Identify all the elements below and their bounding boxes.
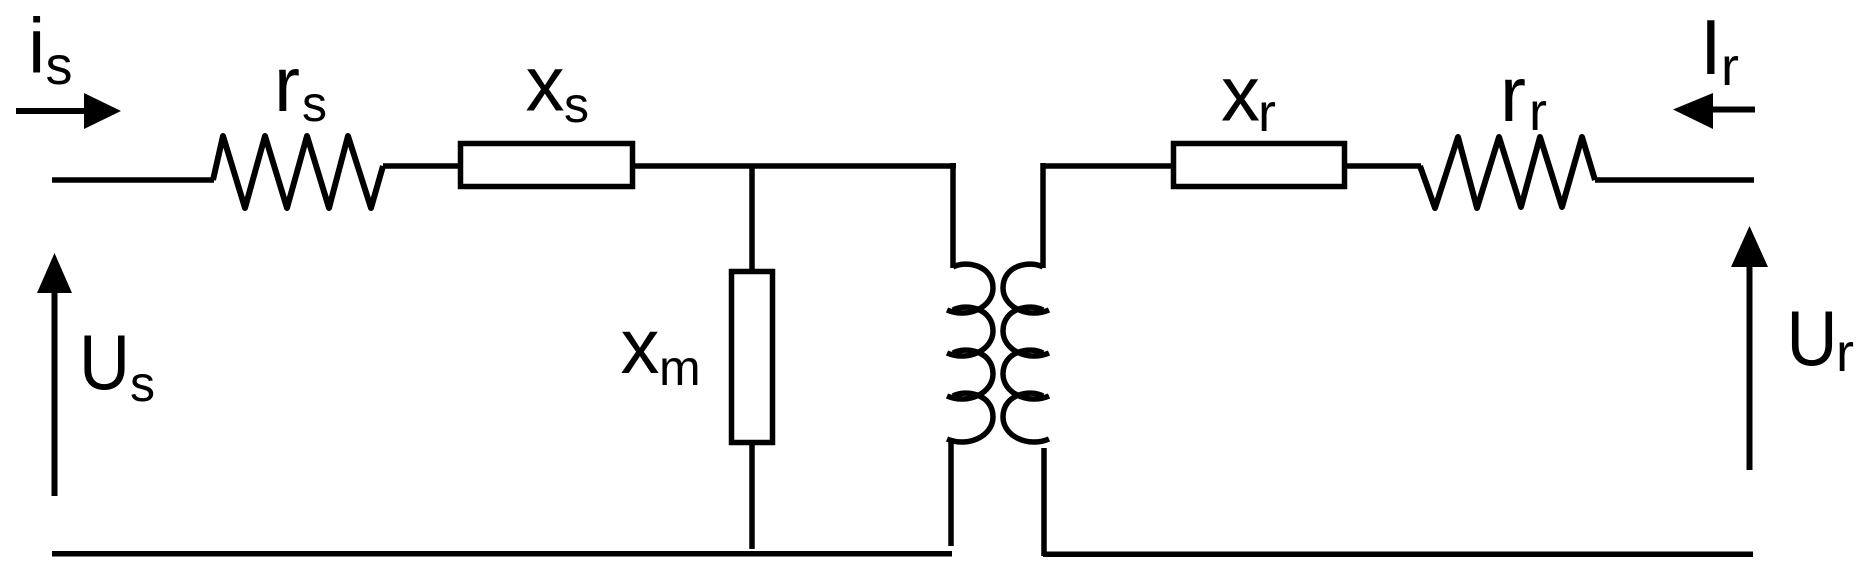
svg-text:I: I (1700, 3, 1722, 91)
svg-text:s: s (564, 77, 589, 133)
svg-text:x: x (621, 302, 660, 390)
svg-text:r: r (1529, 82, 1547, 142)
svg-text:s: s (130, 356, 155, 412)
svg-text:r: r (274, 40, 300, 128)
voltage arrow U_s (37, 253, 72, 496)
svg-text:r: r (1500, 50, 1526, 138)
wire (1041, 448, 1047, 556)
wire x_m branch (749, 166, 755, 271)
svg-text:m: m (659, 340, 701, 396)
wire (749, 443, 755, 549)
bottom rail left (52, 551, 952, 557)
reactance box x_r (1174, 144, 1345, 187)
svg-text:s: s (46, 36, 73, 96)
transformer secondary winding (1003, 163, 1049, 442)
svg-text:i: i (28, 2, 45, 90)
svg-text:x: x (526, 40, 565, 128)
svg-text:s: s (302, 76, 327, 132)
current arrow i_s (16, 93, 121, 129)
svg-text:x: x (1221, 50, 1260, 138)
svg-text:r: r (1836, 323, 1854, 383)
wire (948, 438, 954, 546)
bottom rail right (1043, 552, 1753, 558)
transformer primary winding (947, 163, 993, 442)
svg-text:U: U (79, 318, 130, 406)
wire (1595, 177, 1754, 183)
wire (1345, 163, 1421, 169)
wire (633, 163, 956, 169)
resistor r_s (213, 136, 383, 208)
current arrow I_r (1673, 93, 1755, 129)
svg-text:r: r (1721, 37, 1739, 97)
reactance box x_m (732, 272, 773, 443)
wire (383, 163, 459, 169)
wire (52, 177, 214, 183)
wire (1043, 163, 1172, 169)
resistor r_r (1420, 137, 1595, 208)
reactance box x_s (461, 144, 633, 187)
svg-text:U: U (1787, 294, 1838, 382)
voltage arrow U_r (1731, 226, 1768, 470)
svg-text:r: r (1258, 83, 1276, 143)
